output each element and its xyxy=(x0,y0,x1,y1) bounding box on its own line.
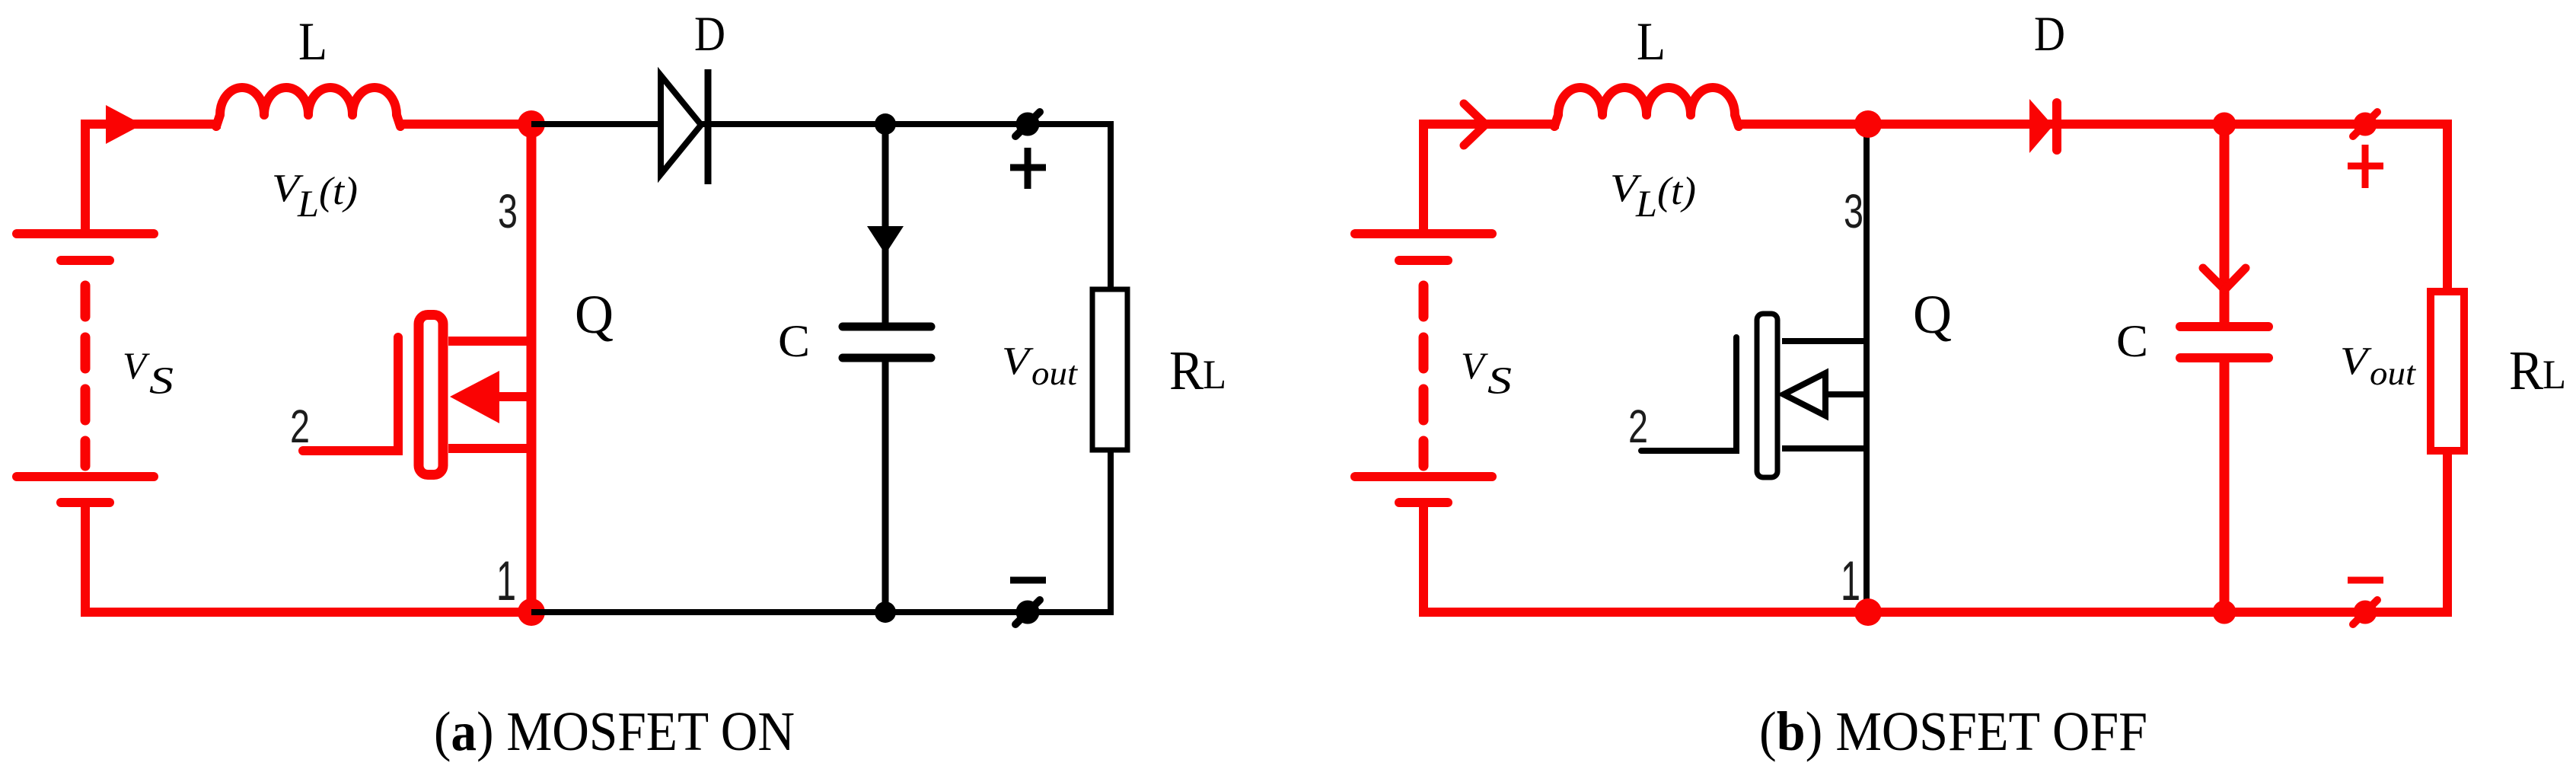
label RL xyxy=(1169,340,1226,401)
MOSFET Q gate lead xyxy=(303,337,398,451)
svg-text:(t): (t) xyxy=(1657,170,1696,213)
wire xyxy=(85,124,221,235)
svg-text:L: L xyxy=(1635,182,1657,225)
wire top black xyxy=(531,121,1111,127)
MOSFET Q channel bar xyxy=(419,315,443,475)
battery VS plate short bottom xyxy=(1399,498,1448,507)
label VL(t) xyxy=(272,167,358,225)
battery VS plate long bottom xyxy=(17,472,154,481)
MOSFET Q gate lead xyxy=(1641,337,1736,451)
wire right branch xyxy=(2443,120,2452,617)
svg-text:2: 2 xyxy=(290,400,310,452)
svg-text:1: 1 xyxy=(1841,550,1860,612)
current arrow into inductor (open chevron) xyxy=(1464,104,1485,145)
terminal + node marker xyxy=(1015,112,1040,136)
svg-text:Q: Q xyxy=(1913,284,1952,345)
svg-text:R: R xyxy=(1169,340,1204,401)
MOSFET Q source lead xyxy=(448,444,531,453)
resistor RL xyxy=(1092,289,1127,450)
capacitor C plates xyxy=(843,327,931,358)
current arrow down into capacitor xyxy=(867,226,904,254)
diode D xyxy=(661,69,708,184)
wire bottom red xyxy=(81,608,531,617)
svg-text:V: V xyxy=(2340,340,2372,383)
terminal - node marker xyxy=(2353,600,2377,624)
svg-text:D: D xyxy=(694,7,725,62)
MOSFET Q channel bar xyxy=(1757,314,1777,477)
svg-text:C: C xyxy=(778,316,810,366)
battery VS plate short top xyxy=(1399,256,1448,265)
current arrow into inductor xyxy=(106,105,142,144)
svg-text:out: out xyxy=(1031,355,1079,392)
current arrow down into capacitor (open chevron) xyxy=(2203,268,2246,289)
node 3 junction dot xyxy=(1854,110,1882,138)
svg-text:L: L xyxy=(297,182,319,225)
wire xyxy=(1423,124,1559,235)
wire xyxy=(1419,122,1428,235)
terminal - node marker xyxy=(1015,600,1040,624)
label RL xyxy=(2509,340,2566,401)
svg-text:3: 3 xyxy=(1844,185,1863,238)
svg-text:(a) MOSFET ON: (a) MOSFET ON xyxy=(434,700,795,762)
MOSFET Q body arrow xyxy=(450,371,531,423)
label Vout xyxy=(1002,340,1079,392)
capacitor C plates xyxy=(2180,327,2268,358)
label Vout xyxy=(2340,340,2417,392)
svg-text:2: 2 xyxy=(1628,400,1648,452)
svg-text:(t): (t) xyxy=(319,170,358,213)
circuit (a): boost converter, MOSFET ON xyxy=(17,7,1226,762)
svg-text:1: 1 xyxy=(496,550,516,612)
terminal + node marker xyxy=(2353,112,2377,136)
wire capacitor branch upper xyxy=(2220,124,2230,327)
battery VS plate long top xyxy=(1355,229,1492,238)
wire bottom black xyxy=(531,609,1114,615)
junction dot top of C xyxy=(875,113,896,135)
svg-text:Q: Q xyxy=(575,284,614,345)
wire xyxy=(81,503,90,617)
minus sign xyxy=(2348,577,2383,584)
battery VS dashed internal wire xyxy=(1419,286,1429,466)
wire xyxy=(81,122,90,235)
node 1 junction dot xyxy=(1854,598,1882,626)
node 1 junction dot xyxy=(518,598,545,626)
MOSFET Q vertical drain-source wire (black) xyxy=(1863,124,1870,612)
svg-text:S: S xyxy=(149,360,174,403)
wire capacitor branch lower xyxy=(882,358,889,612)
svg-text:out: out xyxy=(2370,355,2417,392)
battery VS plate long top xyxy=(17,229,154,238)
svg-text:S: S xyxy=(1487,360,1512,403)
circuit (b): boost converter, MOSFET OFF xyxy=(1355,7,2566,762)
MOSFET Q drain lead xyxy=(1782,338,1867,344)
svg-text:R: R xyxy=(2509,340,2543,401)
wire capacitor branch lower xyxy=(2220,358,2230,612)
battery VS plate short top xyxy=(61,256,110,265)
MOSFET Q drain lead xyxy=(448,337,531,346)
svg-text:D: D xyxy=(2034,7,2065,62)
svg-text:3: 3 xyxy=(498,185,518,238)
MOSFET Q source lead xyxy=(1782,445,1867,452)
battery VS plate short bottom xyxy=(61,498,110,507)
MOSFET Q body arrow (open) xyxy=(1784,373,1867,416)
wire bottom red full xyxy=(1419,608,2452,617)
battery VS plate long bottom xyxy=(1355,472,1492,481)
svg-text:L: L xyxy=(1203,352,1226,397)
wire xyxy=(527,124,537,612)
wire xyxy=(1419,503,1428,617)
node 3 junction dot xyxy=(518,110,545,138)
inductor L xyxy=(216,88,400,126)
svg-text:C: C xyxy=(2116,316,2148,366)
plus sign xyxy=(1010,148,1046,189)
wire top red full xyxy=(1736,120,2452,129)
svg-text:L: L xyxy=(298,12,327,72)
svg-text:L: L xyxy=(1637,12,1666,72)
inductor L xyxy=(1554,88,1739,126)
battery VS dashed internal wire xyxy=(81,286,91,466)
plus sign xyxy=(2348,145,2383,188)
minus sign xyxy=(1010,577,1046,584)
svg-text:(b) MOSFET OFF: (b) MOSFET OFF xyxy=(1759,700,2147,762)
resistor RL (red) xyxy=(2431,292,2464,451)
junction dot bottom of C xyxy=(2213,601,2236,624)
svg-text:L: L xyxy=(2543,352,2566,397)
wire xyxy=(397,120,531,129)
svg-text:V: V xyxy=(1002,340,1034,383)
label VL(t) xyxy=(1610,167,1696,225)
wire right branch xyxy=(1108,121,1114,615)
junction dot bottom of C xyxy=(875,601,896,623)
wire capacitor branch upper xyxy=(882,124,889,327)
junction dot top of C xyxy=(2213,113,2236,136)
diode D (red filled) xyxy=(2029,99,2057,153)
